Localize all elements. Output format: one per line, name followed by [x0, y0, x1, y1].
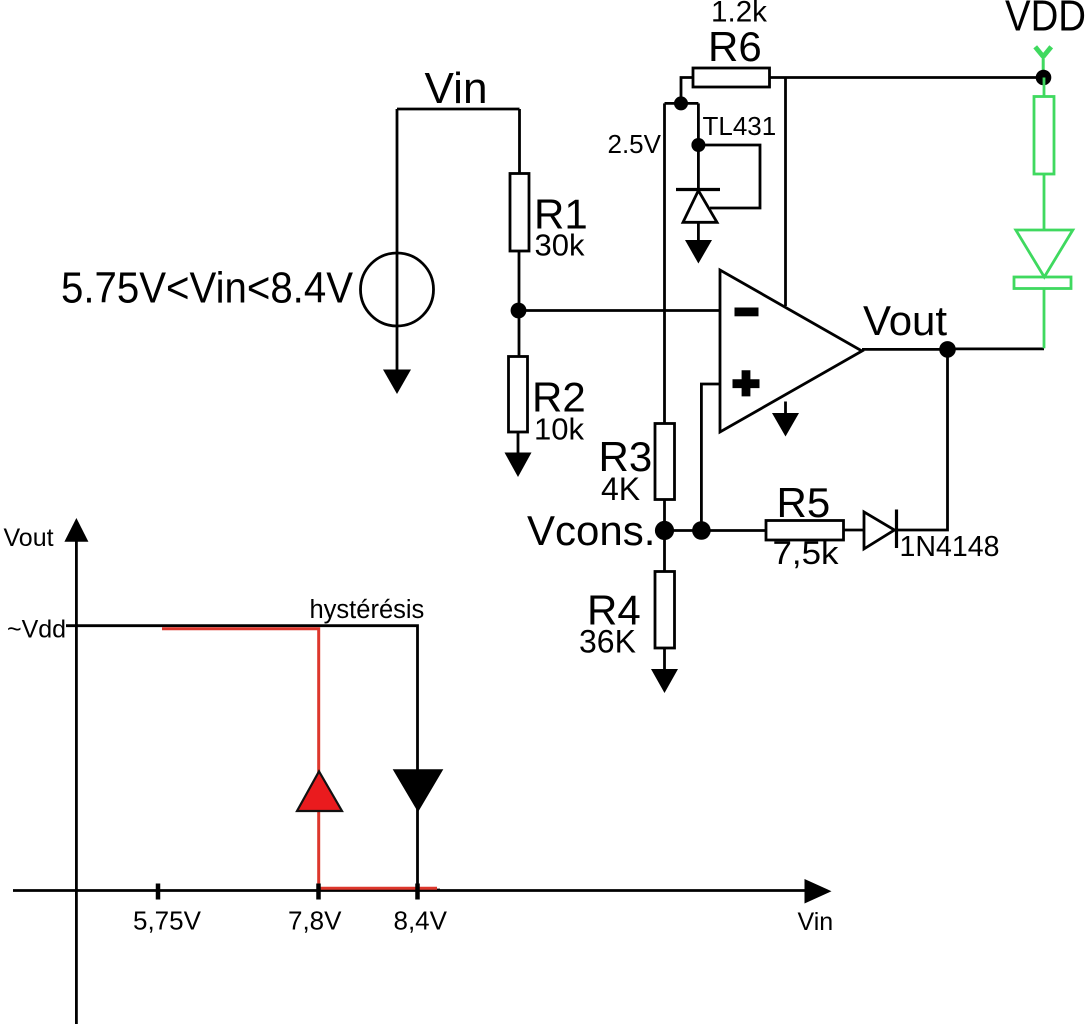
wire op-amp output — [862, 348, 948, 351]
op-amp plus symbol — [733, 370, 760, 396]
node VDD dot — [1036, 70, 1052, 86]
svg-text:10k: 10k — [534, 412, 584, 447]
svg-text:R6: R6 — [708, 23, 762, 70]
resistor R6 — [693, 68, 770, 87]
voltage source V1 — [361, 253, 434, 326]
ground under R2 — [505, 453, 532, 478]
svg-text:Vin: Vin — [798, 908, 834, 936]
svg-text:Vout: Vout — [863, 297, 947, 344]
tick 5,75V — [156, 884, 161, 900]
svg-text:R5: R5 — [777, 479, 831, 526]
curve black down arrow — [394, 770, 442, 811]
TL431 U2 triangle — [683, 191, 717, 223]
TL431 cathode bar — [676, 188, 720, 191]
svg-text:Vcons.: Vcons. — [527, 507, 655, 554]
wire node to op-amp minus — [519, 309, 721, 312]
node Vout dot — [939, 341, 956, 358]
svg-text:VDD: VDD — [1005, 0, 1086, 41]
node junction dot — [511, 303, 527, 319]
wire R4 to ground — [663, 648, 666, 670]
svg-text:1N4148: 1N4148 — [900, 531, 1000, 563]
svg-text:7,8V: 7,8V — [288, 906, 342, 936]
ground under op-amp — [772, 413, 799, 437]
wire TL431 cathode — [697, 145, 700, 190]
resistor R1 — [510, 174, 529, 252]
wire R2 to ground — [517, 432, 520, 455]
node A dot — [674, 96, 688, 110]
resistor RLED — [1034, 97, 1054, 175]
svg-text:4K: 4K — [601, 471, 640, 507]
resistor R3 — [655, 424, 675, 500]
VDD supply symbol — [1035, 47, 1051, 57]
wire Vout feedback down — [897, 349, 948, 530]
wire node A to rail — [665, 102, 699, 105]
node Vcons dot 1 — [655, 521, 674, 540]
node Vcons dot 2 — [692, 521, 711, 540]
resistor R2 — [509, 357, 528, 433]
svg-text:8,4V: 8,4V — [394, 906, 448, 936]
wire R6 left — [681, 78, 693, 104]
wire TL431 anode — [697, 222, 700, 241]
svg-text:5.75V<Vin<8.4V: 5.75V<Vin<8.4V — [61, 264, 354, 313]
svg-text:5,75V: 5,75V — [133, 906, 202, 936]
wire RLED to LED — [1043, 174, 1046, 230]
op-amp minus symbol — [735, 308, 759, 317]
wire op-amp supply — [784, 78, 787, 307]
wire TL431 reference loop — [698, 145, 760, 208]
wire op-amp plus input — [701, 384, 720, 531]
svg-text:hystérésis: hystérésis — [310, 596, 425, 624]
diode D1 cathode bar — [895, 510, 898, 549]
svg-text:Vin: Vin — [425, 64, 488, 113]
svg-text:36K: 36K — [579, 624, 636, 660]
wire V1 vertical — [396, 109, 399, 370]
LED D2 triangle — [1016, 230, 1073, 277]
ground under TL431 — [685, 240, 712, 264]
wire LED to Vout net — [1043, 289, 1046, 349]
wire R1 to R2 — [518, 251, 521, 357]
wire R5 to diode — [844, 529, 865, 532]
diode D1 1N4148 — [864, 512, 895, 549]
svg-text:7,5k: 7,5k — [773, 535, 840, 571]
curve black falling — [66, 626, 440, 890]
svg-text:2.5V: 2.5V — [608, 129, 662, 159]
svg-text:30k: 30k — [535, 228, 585, 263]
graph x axis arrowhead — [805, 879, 832, 904]
wire Vcons to R5 — [665, 529, 767, 532]
tick 7,8V — [316, 884, 321, 900]
svg-text:Vout: Vout — [4, 524, 54, 552]
wire Vin to R1 — [518, 109, 521, 174]
wire R3 to R4 — [663, 500, 666, 572]
node B dot — [691, 138, 705, 152]
resistor R5 — [766, 521, 844, 541]
wire Vin top — [397, 108, 520, 111]
graph x axis — [13, 889, 806, 892]
graph y axis arrowhead — [64, 518, 88, 542]
svg-text:TL431: TL431 — [703, 111, 777, 141]
ground under R4 — [651, 669, 678, 693]
graph y axis — [75, 540, 78, 1024]
op-amp U1 — [720, 270, 862, 432]
wire R6 to VDD — [770, 76, 1044, 79]
ground under V1 — [383, 370, 411, 395]
wire op-amp ground stub — [784, 402, 787, 415]
tick 8,4V — [415, 884, 420, 900]
LED D2 cathode bar — [1014, 277, 1071, 289]
wire node A to TL431 — [697, 103, 700, 145]
wire rail down to R3 — [663, 103, 666, 423]
resistor R4 — [655, 572, 675, 649]
wire LED resistor top — [1043, 78, 1046, 97]
curve red rising — [162, 629, 437, 889]
svg-text:~Vdd: ~Vdd — [7, 616, 66, 644]
curve red up arrow — [297, 771, 342, 811]
wire Vout to LED branch — [948, 347, 1045, 350]
